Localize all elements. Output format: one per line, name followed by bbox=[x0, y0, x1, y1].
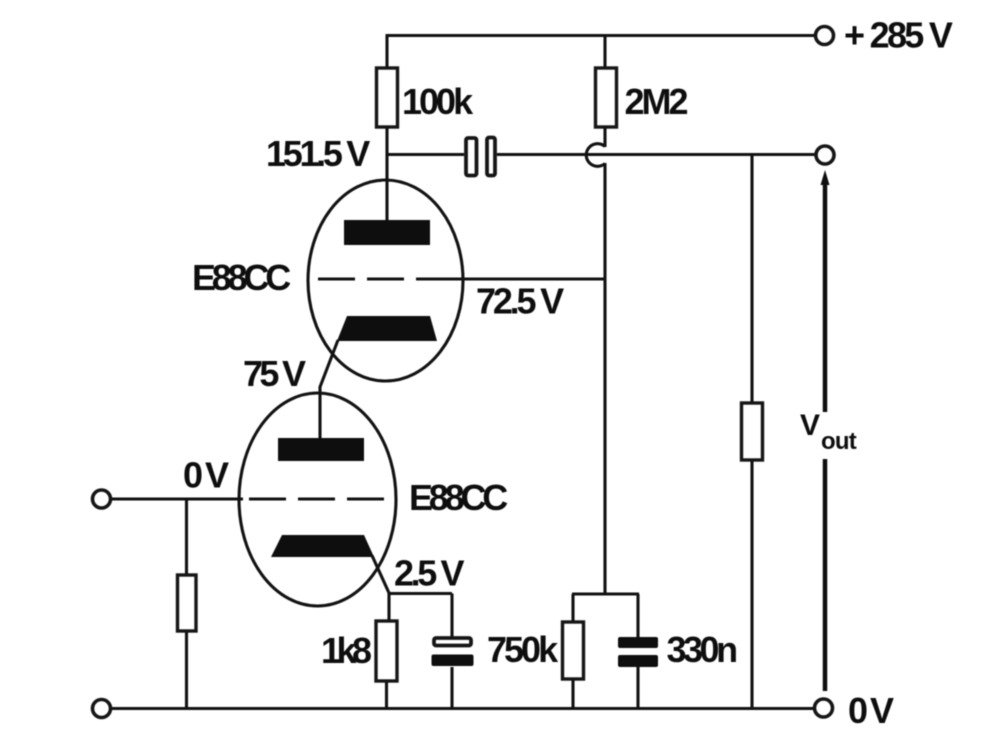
svg-text:72.5 V: 72.5 V bbox=[476, 281, 564, 322]
svg-text:151.5 V: 151.5 V bbox=[266, 133, 370, 174]
svg-text:100k: 100k bbox=[402, 81, 474, 122]
svg-text:E88CC: E88CC bbox=[192, 257, 291, 298]
svg-text:2M2: 2M2 bbox=[625, 81, 688, 122]
svg-text:75 V: 75 V bbox=[243, 353, 306, 394]
svg-text:0 V: 0 V bbox=[183, 455, 229, 496]
svg-text:2.5 V: 2.5 V bbox=[394, 553, 464, 594]
svg-text:750k: 750k bbox=[487, 629, 559, 670]
svg-text:out: out bbox=[821, 428, 857, 455]
svg-text:1k8: 1k8 bbox=[321, 630, 371, 671]
svg-text:330n: 330n bbox=[667, 629, 737, 670]
svg-text:V: V bbox=[800, 409, 820, 442]
svg-text:+ 285 V: + 285 V bbox=[844, 15, 953, 56]
svg-text:0 V: 0 V bbox=[848, 690, 894, 731]
svg-text:E88CC: E88CC bbox=[409, 477, 508, 518]
